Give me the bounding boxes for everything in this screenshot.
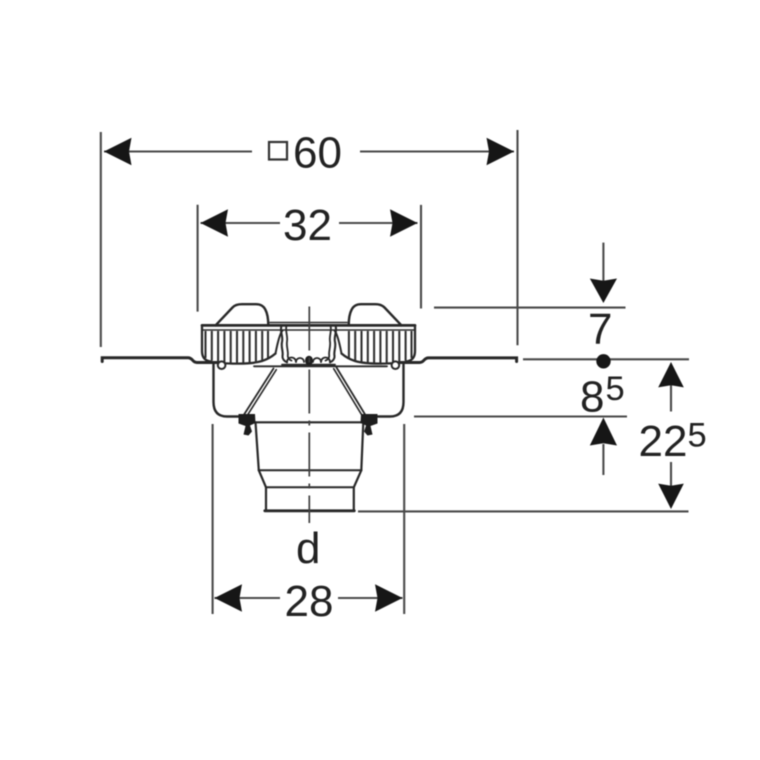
svg-text:22: 22 — [639, 417, 688, 466]
svg-text:d: d — [296, 524, 320, 573]
svg-text:5: 5 — [606, 370, 625, 408]
svg-text:7: 7 — [588, 305, 612, 354]
svg-text:60: 60 — [293, 129, 342, 178]
svg-text:32: 32 — [283, 201, 332, 250]
svg-text:8: 8 — [580, 372, 604, 421]
svg-text:28: 28 — [285, 577, 334, 626]
svg-text:5: 5 — [688, 417, 707, 455]
